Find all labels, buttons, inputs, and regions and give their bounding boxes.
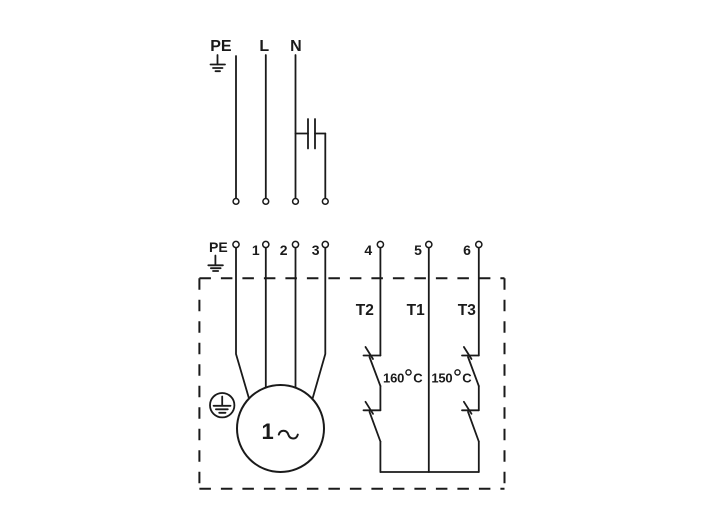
motor label sine [279, 431, 298, 439]
wire 3 to motor [313, 248, 326, 399]
protective earth symbol [210, 393, 234, 417]
pin N plug [293, 199, 299, 205]
label 2 [280, 242, 288, 258]
svg-text:T2: T2 [356, 302, 374, 319]
svg-text:T1: T1 [407, 302, 425, 319]
dashed enclosure pump [199, 278, 504, 489]
label PE terminal [209, 239, 228, 255]
svg-text:2: 2 [280, 242, 288, 258]
svg-text:1: 1 [261, 419, 273, 444]
terminal 4 [377, 241, 383, 247]
wire 6 lower [478, 442, 480, 473]
pin L plug [263, 199, 269, 205]
label PE supply [210, 38, 232, 55]
thermal contact T2 upper [364, 347, 381, 386]
wire bottom bus [380, 471, 478, 473]
wire 4 middle [379, 386, 381, 410]
svg-text:C: C [462, 371, 472, 386]
svg-text:3: 3 [312, 242, 320, 258]
svg-text:1: 1 [252, 242, 260, 258]
terminal PE [233, 241, 239, 247]
svg-text:T3: T3 [458, 302, 476, 319]
wire L [265, 55, 267, 198]
svg-text:PE: PE [209, 239, 228, 255]
svg-text:5: 5 [414, 242, 422, 258]
pin PE plug [233, 199, 239, 205]
thermal contact T3 upper [462, 347, 479, 386]
label 6 [463, 242, 471, 258]
wire 4 upper [379, 248, 381, 356]
svg-text:160: 160 [383, 371, 404, 386]
label 1 [252, 242, 260, 258]
wire N [295, 55, 297, 198]
wire 6 middle [478, 386, 480, 410]
ground terminal PE [208, 256, 223, 272]
label T1 [407, 302, 425, 319]
wire 4 lower [379, 442, 381, 473]
terminal 5 [426, 241, 432, 247]
label 4 [364, 242, 372, 258]
label 3 [312, 242, 320, 258]
label 5 [414, 242, 422, 258]
svg-text:L: L [259, 38, 269, 55]
terminal 1 [263, 241, 269, 247]
terminal 2 [292, 241, 298, 247]
pin capacitor plug [322, 199, 328, 205]
svg-text:6: 6 [463, 242, 471, 258]
wire 5 T1 [428, 248, 430, 472]
svg-text:C: C [413, 371, 423, 386]
label 160C [383, 370, 423, 386]
svg-text:N: N [290, 38, 302, 55]
terminal 3 [322, 241, 328, 247]
wire PE supply [235, 56, 237, 198]
svg-text:150: 150 [431, 371, 452, 386]
ground supply PE [211, 55, 226, 71]
svg-text:PE: PE [210, 38, 232, 55]
wire 6 upper [478, 248, 480, 356]
thermal contact T3 lower [462, 402, 479, 442]
motor label 1 [261, 419, 273, 444]
capacitor C1 [296, 119, 326, 149]
label 150C [431, 370, 472, 386]
wire capacitor branch [324, 134, 326, 198]
wire 1 to motor [265, 248, 267, 388]
label T3 [458, 302, 476, 319]
thermal contact T2 lower [364, 402, 381, 442]
label N [290, 38, 302, 55]
svg-text:4: 4 [364, 242, 372, 258]
wire 2 to motor [295, 248, 297, 388]
motor M1 [237, 385, 324, 472]
label T2 [356, 302, 374, 319]
wire PE to motor [236, 248, 249, 399]
terminal 6 [476, 241, 482, 247]
label L [259, 38, 269, 55]
